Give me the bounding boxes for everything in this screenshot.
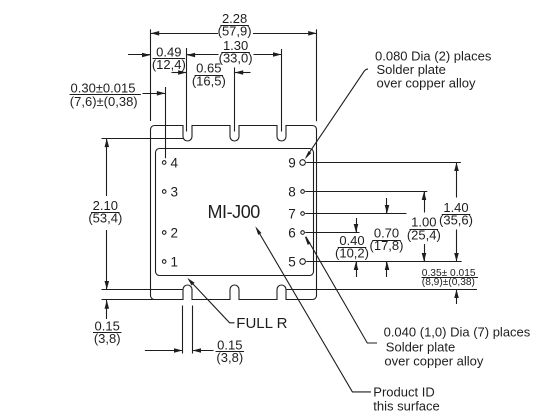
- svg-text:(12,4): (12,4): [152, 57, 186, 72]
- leader to product marking surface: [257, 229, 371, 392]
- extension line slot 2 center: [234, 68, 236, 132]
- svg-text:(57,9): (57,9): [218, 24, 252, 39]
- dimension 1.00 (25,4) line: [424, 192, 426, 213]
- pin 6 hole: [301, 231, 305, 235]
- pin 7 hole: [301, 212, 305, 216]
- svg-text:4: 4: [171, 155, 179, 170]
- extension line slot 1 center: [186, 48, 188, 132]
- extension line body right edge: [316, 29, 318, 121]
- svg-text:(7,6)±(0,38): (7,6)±(0,38): [70, 94, 138, 109]
- dimension 2.10 (53,4) line: [106, 139, 108, 196]
- svg-text:(53,4): (53,4): [88, 210, 122, 225]
- svg-text:(10,2): (10,2): [335, 246, 369, 261]
- inner outline rounded rectangle: [156, 149, 314, 276]
- dimension 0.15 left arrow: [106, 300, 108, 319]
- bottom standoff reference line left segment: [102, 289, 184, 291]
- svg-text:5: 5: [288, 254, 296, 269]
- dimension 1.40 (35,6) line: [456, 163, 458, 198]
- svg-text:7: 7: [288, 206, 296, 221]
- extension line slot right edge: [192, 306, 194, 354]
- module body outline with FULL R slots: [151, 126, 317, 300]
- pin 1 hole: [162, 260, 166, 264]
- pin 3 hole: [162, 190, 166, 194]
- svg-text:(3,8): (3,8): [216, 350, 243, 365]
- dimension 0.49 (12,4) line: [128, 54, 151, 56]
- extension line slot left edge: [182, 306, 184, 354]
- svg-text:2: 2: [171, 225, 179, 240]
- pin 8 row extension line: [305, 191, 427, 193]
- svg-text:0.040 (1,0) Dia (7) places: 0.040 (1,0) Dia (7) places: [384, 325, 531, 340]
- dimension 0.65 (16,5) line: [172, 72, 187, 74]
- bottom standoff reference line right segment: [286, 289, 477, 291]
- extension line pin column left: [165, 87, 167, 158]
- dimension 1.30 (33,0) line: [187, 54, 219, 56]
- pin 4 hole: [162, 161, 166, 165]
- extension line body left edge: [150, 29, 152, 121]
- svg-text:0.30±0.015: 0.30±0.015: [71, 80, 136, 95]
- dimension 0.35 bottom arrow: [456, 290, 458, 305]
- leader to slot full radius: [190, 281, 235, 323]
- svg-text:(17,8): (17,8): [370, 238, 404, 253]
- svg-text:(25,4): (25,4): [407, 227, 441, 242]
- dimension 2.28 (57,9) line: [151, 33, 219, 35]
- svg-text:(33,0): (33,0): [219, 51, 253, 66]
- svg-text:(16,5): (16,5): [192, 73, 226, 88]
- dimension 0.40 (10,2) line: [356, 218, 358, 233]
- pin 7 row extension line: [305, 213, 406, 215]
- pin 9 row extension line: [306, 162, 461, 164]
- svg-text:(8,9)±(0,38): (8,9)±(0,38): [422, 277, 475, 288]
- pin 8 hole: [301, 190, 305, 194]
- pin 9 hole: [300, 160, 306, 166]
- svg-text:this surface: this surface: [373, 398, 439, 413]
- svg-text:9: 9: [288, 155, 296, 170]
- svg-text:1: 1: [171, 254, 179, 269]
- svg-text:over copper alloy: over copper alloy: [384, 353, 483, 368]
- pin 5 hole: [300, 259, 306, 265]
- svg-text:Solder plate: Solder plate: [386, 340, 455, 355]
- pin 5 row extension line: [306, 261, 461, 263]
- dimension 2.10 (53,4) top reference line: [102, 138, 184, 140]
- body bottom extension line to left dimensions: [102, 299, 155, 301]
- svg-text:(3,8): (3,8): [94, 331, 121, 346]
- leader to pin 6 solder pad: [306, 237, 377, 343]
- svg-text:MI-J00: MI-J00: [208, 202, 261, 222]
- svg-text:over copper alloy: over copper alloy: [377, 76, 476, 91]
- svg-text:6: 6: [288, 225, 296, 240]
- leader to pin 9 solder pad: [306, 69, 368, 157]
- pin 6 row extension line: [305, 232, 359, 234]
- pin 2 hole: [162, 231, 166, 235]
- svg-text:8: 8: [288, 184, 296, 199]
- extension line slot 3 center: [281, 49, 283, 132]
- dimension 0.70 (17,8) line: [386, 198, 388, 214]
- svg-text:3: 3: [171, 184, 179, 199]
- dimension 0.30 pointer line: [143, 93, 166, 95]
- svg-text:(35,6): (35,6): [439, 212, 473, 227]
- svg-text:FULL R: FULL R: [236, 315, 287, 332]
- dimension 0.15 (3,8) bottom line: [145, 350, 183, 352]
